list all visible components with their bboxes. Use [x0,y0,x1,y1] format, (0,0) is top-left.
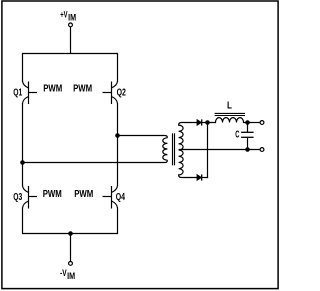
transistor Q1 [23,81,38,104]
svg-text:Q2: Q2 [117,88,127,99]
label +VIM [60,10,76,23]
diode D1 [197,119,208,125]
node top output terminal [260,121,264,125]
transformer T1 core [173,133,175,165]
node +VIM terminal [69,23,73,27]
svg-text:Q3: Q3 [13,192,22,203]
node junction left leg to primary [20,160,25,165]
wire secondary center tap to output [179,149,260,151]
transistor Q2 [103,81,118,104]
wire left leg middle [22,103,24,186]
transformer T1 primary winding [163,138,168,160]
node junction L output [245,120,250,125]
transistor Q4 [103,186,118,209]
node junction C bottom / output rail [245,147,250,152]
node bottom output terminal [260,148,264,152]
inductor L core bars [215,113,245,115]
wire left leg upper [22,53,24,82]
svg-text:C: C [235,129,239,140]
svg-text:PWM: PWM [74,189,93,200]
svg-text:IM: IM [68,13,76,23]
wire top rail [23,53,118,55]
wire bottom rail to -VIM terminal [70,234,72,262]
wire +VIM to top rail [70,27,72,54]
wire bottom rail [23,233,118,235]
wire left leg lower [22,208,24,235]
transformer T1 secondary winding [179,123,197,178]
svg-text:PWM: PWM [43,84,62,95]
label -VIM [60,268,75,281]
wire bridge left output to primary bottom [23,160,168,162]
svg-text:Q1: Q1 [13,87,22,98]
wire right leg upper [117,53,119,82]
svg-text:PWM: PWM [73,84,92,95]
inductor L [208,118,248,123]
node junction bottom rail to -VIM [68,231,73,236]
node junction right leg to primary [115,133,120,138]
wire bridge right output to primary top [118,136,168,138]
diode D2 [197,174,208,180]
svg-text:PWM: PWM [43,189,62,200]
wire right leg lower [117,208,119,235]
wire L to top output terminal [248,122,260,124]
svg-text:+V: +V [60,10,68,20]
svg-text:L: L [227,101,232,112]
svg-text:IM: IM [67,271,75,281]
wire diode bus [207,123,209,179]
transistor Q3 [23,186,38,209]
capacitor C [241,123,254,150]
wire right leg middle [117,103,119,186]
svg-text:Q4: Q4 [116,192,126,203]
node -VIM terminal [69,262,73,266]
node junction diode bus / L [205,120,210,125]
